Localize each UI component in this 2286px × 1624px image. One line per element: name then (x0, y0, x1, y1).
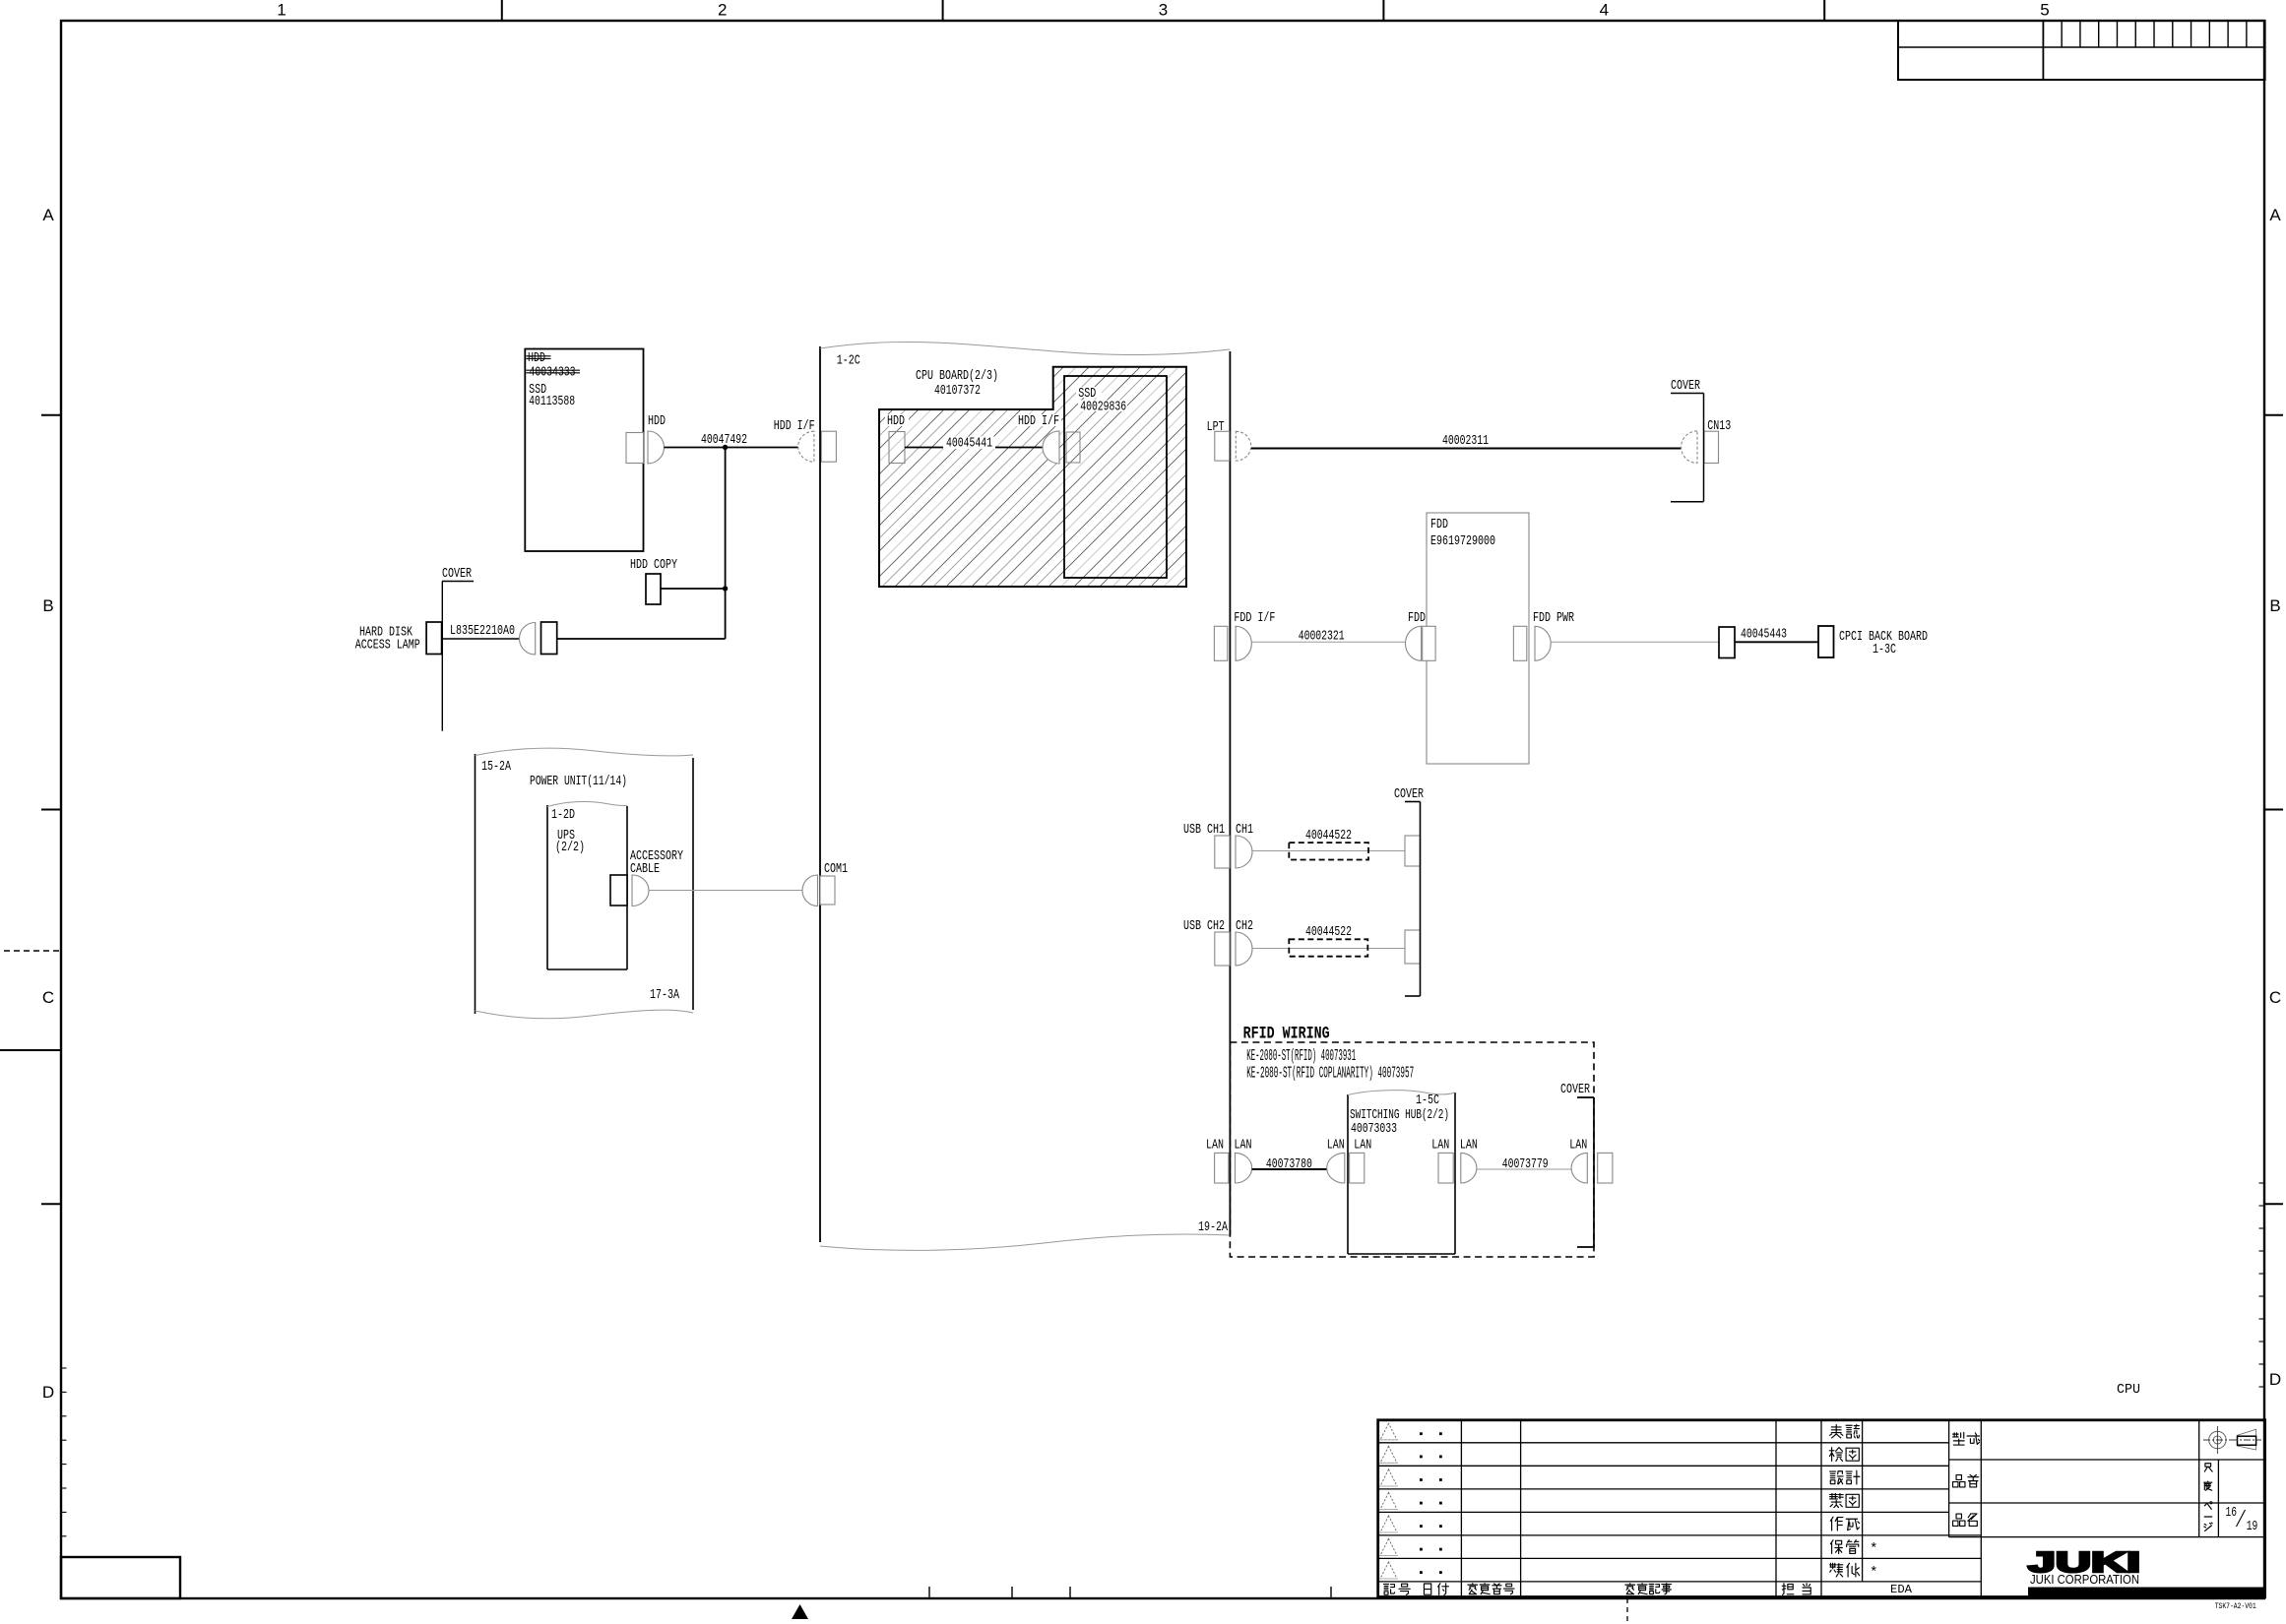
svg-text:40044522: 40044522 (1305, 925, 1352, 940)
svg-text:FDD: FDD (1408, 611, 1426, 626)
connector LAN on CPU (1215, 1153, 1229, 1183)
junction node (723, 445, 728, 450)
zone divider ticks left (41, 414, 61, 416)
label 尺度 vertical (2204, 1464, 2212, 1471)
svg-text:C: C (42, 988, 54, 1007)
centre fold mark dashed left (4, 950, 61, 952)
svg-text:CH1: CH1 (1236, 823, 1253, 838)
svg-text:19-2A: 19-2A (1198, 1220, 1229, 1235)
wire 40002321 (1251, 641, 1405, 643)
svg-text:CH2: CH2 (1236, 919, 1253, 934)
svg-text:*: * (1870, 1541, 1877, 1557)
revision header labels (1383, 1584, 1388, 1594)
svg-text:COVER: COVER (1560, 1083, 1590, 1097)
label 品番 (1953, 1475, 1965, 1487)
svg-text:TSK7-A2-V01: TSK7-A2-V01 (2215, 1601, 2256, 1611)
wire 40073779 (1477, 1168, 1571, 1170)
RFID wiring dashed group box (1230, 1042, 1594, 1257)
svg-text:D: D (2269, 1370, 2281, 1389)
connector HDD I/F on SSD module (1016, 414, 1061, 426)
wire 40045443 (1735, 641, 1818, 643)
connector LAN hub right (1438, 1153, 1453, 1183)
svg-text:(2/2): (2/2) (555, 840, 585, 855)
connector COM1 (802, 875, 818, 906)
dashed extension line below title block (1626, 1598, 1628, 1624)
connector CPCI BACK BOARD (1818, 626, 1834, 657)
svg-text:LAN: LAN (1354, 1139, 1371, 1154)
svg-text:POWER UNIT(11/14): POWER UNIT(11/14) (530, 774, 627, 789)
approval column labels (1862, 1420, 1864, 1582)
svg-text:CPU BOARD(2/3): CPU BOARD(2/3) (916, 368, 998, 384)
title block outer border (1378, 1420, 2265, 1597)
wire from HDD COPY (661, 588, 726, 590)
label ページ vertical (2204, 1503, 2211, 1509)
svg-text:FDD: FDD (1430, 518, 1448, 532)
svg-text:JUKI CORPORATION: JUKI CORPORATION (2030, 1572, 2139, 1587)
svg-text:LAN: LAN (1460, 1139, 1478, 1154)
wire USB CH1 (1251, 850, 1405, 852)
cable marker 40044522 CH2 (1289, 939, 1367, 956)
svg-text:40029836: 40029836 (1080, 401, 1126, 415)
connector accessory cable at UPS (610, 875, 627, 906)
junction node at HDD COPY (723, 586, 728, 591)
zone divider ticks right (2264, 414, 2283, 416)
wire to access lamp connector (557, 638, 726, 640)
cable marker 40044522 CH1 (1289, 843, 1368, 859)
wire vertical from junction (725, 448, 727, 640)
wire L835E2210A0 (442, 638, 520, 640)
connector HDD_COPY (646, 574, 661, 604)
svg-text:1-5C: 1-5C (1416, 1093, 1439, 1108)
CPU unit wavy top edge (820, 342, 1230, 354)
svg-text:HDD: HDD (648, 414, 666, 429)
svg-text:COVER: COVER (1394, 787, 1424, 802)
svg-text:LAN: LAN (1327, 1139, 1345, 1154)
connector on cover CH1 (1405, 836, 1421, 866)
svg-text:19: 19 (2247, 1520, 2258, 1534)
svg-text:2: 2 (718, 1, 727, 20)
revision rows: triangles and date dots (1380, 1423, 1397, 1440)
wire 40047492 horizontal (665, 447, 799, 449)
svg-text:40002321: 40002321 (1299, 630, 1345, 645)
SSD box (former HDD) 40113588 (525, 349, 643, 552)
svg-text:HDD I/F: HDD I/F (1018, 413, 1059, 429)
svg-text:*: * (1870, 1565, 1877, 1581)
UPS box (546, 805, 548, 969)
svg-text:ACCESS LAMP: ACCESS LAMP (355, 638, 420, 653)
svg-text:A: A (42, 206, 54, 224)
label 型式 (1953, 1433, 1965, 1446)
centre fold mark solid left (0, 1049, 61, 1051)
connector LAN hub left (1327, 1153, 1345, 1183)
svg-text:FDD PWR: FDD PWR (1533, 611, 1574, 626)
connector hard disk access lamp (426, 622, 442, 655)
fold marks bottom edge (928, 1587, 930, 1598)
svg-text:B: B (42, 596, 53, 615)
svg-text:40073779: 40073779 (1502, 1157, 1549, 1172)
scale ruler ticks left edge (61, 1367, 67, 1369)
svg-text:1-3C: 1-3C (1873, 643, 1896, 657)
svg-text:40107372: 40107372 (934, 384, 981, 399)
projection method symbol (2209, 1431, 2226, 1448)
POWER UNIT boundary (475, 754, 476, 1014)
svg-text:3: 3 (1159, 1, 1168, 20)
svg-text:D: D (42, 1383, 54, 1402)
SWITCHING HUB box (1347, 1094, 1349, 1254)
svg-text:L835E2210A0: L835E2210A0 (450, 624, 515, 639)
svg-text:CN13: CN13 (1707, 419, 1731, 434)
svg-text:1-2C: 1-2C (837, 354, 860, 369)
svg-text:40073033: 40073033 (1351, 1122, 1397, 1137)
wire 40045441 (905, 447, 1043, 449)
connector LPT (1204, 420, 1226, 432)
svg-text:KE-2080-ST(RFID) 40073931: KE-2080-ST(RFID) 40073931 (1246, 1046, 1356, 1065)
connector CN13 (1682, 431, 1697, 464)
svg-text:B: B (2269, 596, 2280, 615)
svg-text:COM1: COM1 (824, 862, 848, 877)
FDD unit box E9619729000 (1427, 513, 1529, 764)
svg-text:17-3A: 17-3A (650, 988, 680, 1003)
logo underline bar (2028, 1588, 2265, 1597)
scale ruler ticks right edge (2259, 1182, 2265, 1184)
connector on cover CH2 (1405, 930, 1421, 964)
connector HDD on SSD box (626, 433, 644, 464)
svg-text:EDA: EDA (1890, 1584, 1912, 1596)
label 品名 (1953, 1514, 1965, 1526)
svg-text:SWITCHING HUB(2/2): SWITCHING HUB(2/2) (1350, 1107, 1449, 1123)
CPU unit boundary right (1229, 351, 1231, 1235)
svg-text:40045441: 40045441 (946, 437, 992, 452)
revision table lines (1378, 1442, 1949, 1444)
svg-text:RFID WIRING: RFID WIRING (1243, 1025, 1330, 1044)
svg-text:15-2A: 15-2A (481, 760, 512, 775)
svg-text:KE-2080-ST(RFID COPLANARITY) 4: KE-2080-ST(RFID COPLANARITY) 40073957 (1246, 1064, 1414, 1083)
svg-text:COVER: COVER (442, 567, 472, 582)
svg-text:HDD COPY: HDD COPY (630, 558, 678, 573)
wire 40073780 (1252, 1168, 1327, 1170)
zone divider ticks top (501, 0, 503, 21)
svg-text:4: 4 (1600, 1, 1609, 20)
svg-text:16: 16 (2226, 1506, 2238, 1521)
svg-text:A: A (2269, 206, 2281, 224)
svg-text:40002311: 40002311 (1442, 434, 1489, 449)
centring triangle bottom (792, 1604, 808, 1619)
wire from FDD PWR (1551, 641, 1719, 643)
wire USB CH2 (1252, 948, 1405, 950)
svg-text:FDD I/F: FDD I/F (1234, 610, 1275, 626)
svg-text:LAN: LAN (1569, 1139, 1587, 1154)
connector HDD on CPU board (885, 414, 909, 426)
bottom-left fold box (61, 1557, 180, 1598)
part info section lines (1948, 1420, 1950, 1537)
svg-text:1-2D: 1-2D (551, 808, 575, 823)
svg-text:40044522: 40044522 (1305, 829, 1352, 843)
svg-text:LAN: LAN (1235, 1139, 1252, 1154)
connector pair L835E2210A0 (520, 623, 536, 656)
wire 40002311 (1251, 448, 1682, 450)
svg-text:5: 5 (2040, 1, 2049, 20)
svg-text:LAN: LAN (1206, 1139, 1224, 1154)
svg-text:COVER: COVER (1671, 379, 1700, 394)
svg-text:LAN: LAN (1431, 1139, 1449, 1154)
wire COM1 (649, 890, 802, 892)
svg-text:40113588: 40113588 (529, 395, 575, 409)
svg-text:CPU: CPU (2117, 1383, 2140, 1398)
svg-text:40073780: 40073780 (1266, 1157, 1312, 1172)
svg-text:HDD: HDD (887, 414, 905, 429)
SSD module box on CPU board (1076, 387, 1102, 398)
CPU unit wavy bottom edge (820, 1234, 1230, 1250)
connector 40045443 left end (1719, 627, 1735, 658)
connector LAN cover side (1571, 1153, 1587, 1183)
svg-text:E9619729000: E9619729000 (1430, 534, 1495, 549)
svg-text:40045443: 40045443 (1741, 628, 1787, 643)
svg-text:1: 1 (277, 1, 286, 20)
CPU unit boundary left (819, 346, 821, 1242)
svg-text:C: C (2269, 988, 2281, 1007)
revision grid table top-right (1898, 21, 2265, 80)
